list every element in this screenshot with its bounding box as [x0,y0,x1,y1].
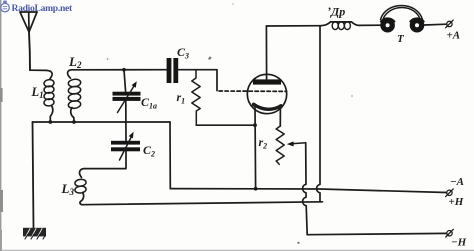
scan specks [0,3,353,251]
headphones T [380,5,424,32]
svg-text:ʼДр: ʼДр [327,5,345,19]
antenna [20,12,37,32]
wire filament right leg [279,108,281,126]
svg-text:C2: C2 [143,143,155,159]
node r1/cathode junction [253,123,257,127]
wire C-junction link down [169,122,171,189]
svg-text:L2: L2 [68,54,82,70]
node filament leg on A-bus [254,187,258,191]
tube filament [254,104,282,109]
node top wire / C1a junction [122,68,126,72]
wire ground feeder [33,122,34,228]
svg-text:r1: r1 [177,90,186,106]
capacitor C3 [167,58,179,83]
svg-text:T: T [397,33,405,45]
svg-text:−Н: −Н [451,237,467,249]
wire C1a top lead [124,70,126,92]
svg-text:C3: C3 [177,45,189,61]
wire anode branch V2 with hop [317,26,320,202]
svg-text:+Н: +Н [449,196,464,208]
svg-text:RadioLamp.net: RadioLamp.net [12,3,73,14]
wiper arrow of r2 [287,141,306,146]
node L1 bottom on bus [48,120,52,124]
wire choke to phones [359,24,381,26]
wire bottom -H lead [307,233,446,234]
node L2 bottom on bus [72,120,76,124]
ground [23,228,46,239]
wire grid dashed lead [219,90,287,92]
wire antenna to L1 top [30,69,47,71]
wire wiper down V1 with hops [303,143,308,235]
wire anode rail [266,25,321,27]
wire C2 bottom to L3 top [84,151,126,168]
wire anode lead [265,26,267,79]
svg-text:L3: L3 [61,181,75,197]
coil L1 [44,70,55,121]
scan edge bottom [0,249,474,251]
wire antenna feeder down [29,32,30,70]
wire ground bus y=122 [33,121,171,123]
svg-text:r2: r2 [259,135,268,151]
svg-text:L1: L1 [31,85,44,100]
wire filament left leg [254,106,257,189]
wire grid tank top [72,69,167,71]
tube anode plate [253,79,281,84]
wire C3 to grid corner [178,70,217,91]
wire r1 bottom to cathode leg [196,124,255,126]
terminal -H [446,229,454,237]
coil L2 [68,70,82,122]
wire A-bus [170,189,446,193]
wire tickler B-bus [82,202,323,205]
wire phones to +A [424,23,446,26]
coil L3 [75,169,87,205]
wire C1a bottom to C2 top [125,101,127,141]
capacitor C1a [113,81,141,112]
terminal -A +H [446,189,454,197]
choke Dr [321,22,359,30]
svg-text:+А: +А [447,30,461,42]
svg-text:C1a: C1a [141,95,157,111]
tube U1 envelope [247,74,286,113]
terminal +A [446,20,454,28]
resistor r1 [192,70,200,126]
resistor r2 [276,126,284,164]
logo RadioLamp.net [1,1,73,14]
capacitor C2 [111,132,140,160]
svg-text:−А: −А [450,176,464,188]
scan edge left [0,0,2,251]
